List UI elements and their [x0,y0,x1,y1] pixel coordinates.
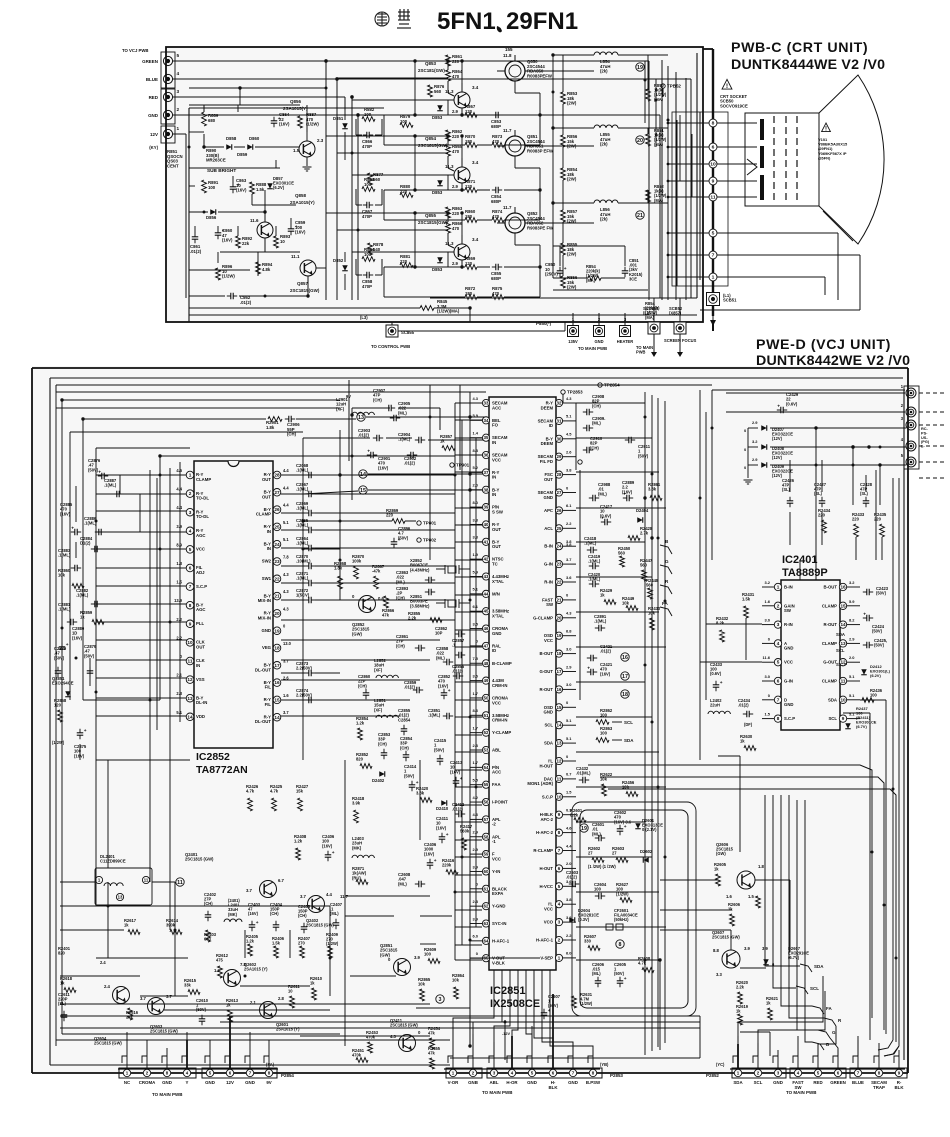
resistor R888 1.5k [250,182,255,194]
CRT gun bar 3 [760,175,764,200]
wire right top risers [815,560,817,580]
svg-text:DUNTK8444WE V2 /V0: DUNTK8444WE V2 /V0 [731,57,885,73]
diode D856 [210,209,216,215]
svg-text:11: 11 [710,195,715,201]
capacitor C853 680P [492,114,496,116]
wire CRT bottom 1 [717,232,838,234]
capacitor C866 470P [363,134,367,136]
bus vertical 2 [336,79,338,300]
connector P2854 pin 8 GND [166,1056,168,1068]
label R877 560 [368,173,373,185]
connector P2854 pin 1 NC [126,1056,128,1068]
IC2852 pin 28 R-Y OUT [273,471,281,479]
svg-text:GNB: GNB [468,1080,478,1085]
resistor R864 470 [446,70,451,81]
bus vertical 1 [325,61,327,300]
IC2852 pin 21 B-Y MIX-IN [273,592,281,600]
resistor R870 180 [465,143,477,148]
wire run right top 3 [608,789,896,1042]
CRT socket pin 11 [709,193,717,201]
connector P2854 pin 4 Y [186,1056,188,1068]
svg-text:BLK: BLK [549,1085,559,1090]
resistor R891 100 [202,180,207,193]
wire vertical pin bus left of IC2851 [454,403,456,960]
hook G bottom [818,1030,830,1038]
IC2401 pin 2 GAIN SW [774,602,781,609]
svg-text:PWB-C (CRT UNIT): PWB-C (CRT UNIT) [731,40,868,56]
warning triangle CRT socket [722,79,732,89]
bus vertical right [667,66,669,300]
connector P2852 pin 5 RED [817,1056,819,1068]
perimeter wire 5 [95,448,97,770]
connector P2852 pin 2 SCL [757,1056,759,1068]
connector P2854 housing 1 [119,1068,196,1078]
capacitor C854 680P [492,189,496,191]
IC2401 pin 13 CLAMP [839,640,846,647]
wire IC2852 left feeder [96,659,188,661]
wire P2852 risers [737,1036,739,1056]
scan tint top board [166,47,703,322]
connector pin 2 GND [163,110,172,119]
capacitor C855 680P [492,266,496,268]
IC2401 pin 8 S.C.P [774,715,781,722]
svg-text:10: 10 [710,162,716,168]
IC2401 pin 4 A GND [774,640,781,647]
diode D2411 [845,723,851,729]
capacitor C861 .01(2) [194,233,196,237]
IC2401 pin 6 G-IN [774,677,781,684]
CRT cathode chevron [747,159,757,175]
wire 12V drop [739,756,741,852]
junction [356,113,359,116]
resistor R875 470 [492,295,504,300]
bus vertical center-right [651,395,653,1051]
link 15 [359,486,367,494]
link 11 [176,878,184,886]
IC2401 pin 11 CLAMP [839,677,846,684]
IC2852 pin 26 B-Y CLAMP [273,506,281,514]
IC2852 pin 14 VDD [186,713,194,721]
connector P2852 housing 1 [732,1068,786,1078]
wire CRT bottom 2 [717,254,860,256]
svg-text:BLK: BLK [895,1085,905,1090]
wire BLUE [173,78,691,80]
svg-text:PWE-D (VCJ UNIT): PWE-D (VCJ UNIT) [756,337,891,353]
diode D853 stage [437,257,443,263]
connector P2853 pin 5 GND [531,1056,533,1068]
bus vertical center-right [664,401,666,1043]
resistor R852 1k [646,190,651,202]
junction dot sprinkle [325,87,328,90]
wire stage b [455,219,465,221]
IC2852 pin 20 R-Y MIX-IN [273,610,281,618]
link 13 [357,413,365,421]
capacitor C2423 (50V) [863,591,867,593]
wire socket feeders vertical [644,61,646,123]
svg-text:TRAP: TRAP [873,1085,885,1090]
wire IC2852 left feeder [96,715,188,717]
svg-text:ABL: ABL [490,1080,499,1085]
wire bottom bus 3 [300,1035,430,1037]
transistor Q856 [299,141,315,157]
IC2852 pin 13 B-Y DL-IN [186,694,194,702]
wire IC2852 left feeder [96,548,188,550]
capacitor C858 470P [363,274,367,276]
diode D2408 EXO322CE [761,444,767,450]
inner stage box line [430,297,697,299]
connector pin 3 right edge [906,420,916,430]
IC2852 pin 7 S.C.P [186,583,194,591]
capacitor C862 .01(2) [227,295,231,297]
svg-text:GND: GND [594,339,603,344]
CRT socket pin 5 [709,229,717,237]
perimeter wire 3 [56,384,712,386]
svg-text:(PG): (PG) [921,440,930,444]
wire diode stack [747,428,749,478]
svg-text:P2853: P2853 [610,1073,623,1078]
resistor R887 470 [298,116,303,128]
link 3 [436,995,444,1003]
wire top strip left extras [56,407,340,409]
capacitor C2424 (50V) [863,617,867,619]
bus vertical center-right [644,392,646,1055]
svg-text:GND: GND [148,113,159,118]
wire right edge dashes [919,477,946,479]
connector P850 pin 2 GND [594,326,605,337]
svg-text:P2854: P2854 [281,1073,294,1078]
wire GND [173,114,660,116]
wire sub3 [203,134,205,147]
connector pin 4 right edge [906,441,916,451]
bus vertical 3 [351,97,353,300]
connector pin 5 right edge [906,457,916,467]
arrow SCC853 [653,334,655,352]
wire mesh left cluster [189,104,300,106]
bus vertical 12V [504,1020,506,1060]
IC2851 body [489,397,556,970]
diode D857 EXO301CE [267,183,273,189]
junction [335,77,338,80]
IC2852 pin 12 VSS [186,676,194,684]
test point TP2854 [598,383,602,387]
wire R845 [398,330,565,332]
wire bottom-left mesh [60,905,210,907]
svg-text:GND: GND [162,1080,172,1085]
board inner border [50,377,903,379]
resistor R862 220 [446,130,451,141]
connector SC855 [386,325,398,337]
inner partition horizontal [189,107,384,109]
connector P2852 housing 2 [790,1068,846,1078]
IC2852 pin 11 CLK IN [186,657,194,665]
wire mesh rows [326,60,448,62]
svg-text:GREEN: GREEN [142,59,158,64]
wire IC2851 bottom fanout [453,970,494,1056]
wire conn feeders [770,427,906,429]
resistor R866 470 [446,222,451,233]
capacitor C850 10 (250V) [559,267,561,271]
wire strip a [352,407,390,409]
diode D2407 EXO322CE [761,425,767,431]
wire diodes [206,146,224,148]
link 19 [580,824,588,832]
logo stamp 2 [397,9,411,28]
svg-text:V-OR: V-OR [448,1080,460,1085]
inner bottom line [189,314,697,316]
wire 12V [173,133,186,135]
IC2852 pin 10 CLK OUT [186,639,194,647]
resistor R874 470 [492,218,504,223]
IC2852 pin 1 R-Y CLAMP [186,471,194,479]
CRT gun dashed 2 [785,116,787,203]
connector P2854 pin 8 9V [268,1056,270,1068]
CRT bell inner line [823,211,853,241]
connector P2852 pin 9 R- [898,1056,900,1068]
wire midcol [355,259,357,275]
scan tint bottom board [32,366,908,1073]
link 16 [621,653,629,661]
resistor R856 15k [561,135,566,147]
hook B [660,545,672,554]
capacitor C2906 55 (CH) [285,418,289,420]
wire IC2852 left feeder [96,697,188,699]
perimeter wire R2901 run [82,419,84,700]
capacitor C864 22(16V) [273,117,275,121]
label R876 560 [428,85,433,97]
resistor R879 100 [400,123,413,128]
connector P2852 base [730,1068,905,1070]
IC2852 pin 3 R-Y TO-DL [186,508,194,516]
resistor R869 120 [465,265,477,270]
connector P2853 pin 7 GND [572,1056,574,1068]
transistor Q850 output [505,61,525,81]
hook SDA bottom [800,964,812,972]
IC2852 pin 19 GND [273,627,281,635]
wire staircase R [789,795,824,1018]
junction stage [460,188,463,191]
diode D858 [226,144,232,150]
link 17 [621,672,629,680]
svg-text:P2852: P2852 [706,1073,719,1078]
resistor R878 540 [368,243,373,255]
connector pin 2 right edge [906,407,916,417]
connector P850 pin 1 135V [568,326,579,337]
svg-text:PWB: PWB [636,350,646,355]
IC2401 pin 14 R-OUT [839,621,846,628]
IC2852 pin 17 B-Y DL-OUT [273,662,281,670]
wire stage c [461,83,463,92]
CRT socket pin 10 [709,160,717,168]
svg-text:BLUE: BLUE [852,1080,864,1085]
connector pin 3 RED [163,92,172,101]
wire bottom bus 2 [62,1033,340,1035]
resistor R871 120 [465,188,477,193]
svg-text:US-: US- [921,436,928,440]
svg-text:7: 7 [712,253,715,259]
capacitor C867 470P [363,204,367,206]
transistor Q2602 [224,970,241,987]
connector P2852 pin 8 SECAM [878,1056,880,1068]
connector P2853 pin 3 ABL [493,1056,495,1068]
inner partition vertical [188,108,190,322]
inductor L856 47uH [594,200,618,203]
pin number 19 [636,63,644,71]
svg-text:RC-: RC- [921,427,929,431]
svg-text:SDA: SDA [733,1080,743,1085]
pin number 20 [636,136,644,144]
wire IC2852 left feeder [96,510,188,512]
wire IC2852 left feeder [96,677,188,679]
wire mesh right column [562,55,564,92]
wire top-left extra [55,385,57,392]
wire staircase SDA [765,795,800,966]
wire IC2852 left feeder [96,474,188,476]
CRT socket pin 1 [709,273,717,281]
transistor Q2603 [148,998,165,1015]
board inner border 2 [903,390,905,1060]
transistor Q2402 [308,896,325,913]
wire P2853 risers [452,1026,454,1056]
transistor Q2401 [260,881,277,898]
svg-text:GND: GND [773,1080,783,1085]
thick riser H-BLK [552,994,554,1068]
CRT bell outline [819,75,884,244]
svg-text:HEATER: HEATER [617,339,633,344]
capacitor C2901 470 (16V) [367,454,371,456]
transistor Q2411 [399,1035,416,1052]
transistor Q2607 [722,950,740,968]
diode D2404 [637,517,643,523]
capacitor C851 .001 3kV [624,267,626,271]
resistor R851 1k [646,134,651,146]
IC2852 pin 18 VEG [273,644,281,652]
wire right mid verticals [575,403,577,470]
thick riser Y pin [186,1040,188,1068]
wire right hooks [878,1040,893,1050]
junction stage [460,265,463,268]
thick riser H-OR [511,1036,513,1068]
wire midcol [355,189,357,205]
wire stage a [415,114,465,116]
wire GREEN [173,60,649,62]
ground diode stack [744,479,753,481]
wire verticals left of IC2852 [149,470,151,745]
IC2401 pin 5 VCC [774,659,781,666]
inductor L855 47uH [594,125,618,128]
connector P2854 base [118,1068,278,1070]
connector P2852 pin 6 GREEN [837,1056,839,1068]
svg-text:GREEN: GREEN [830,1080,846,1085]
diode D2410 [441,800,447,806]
IC2852 pin 16 B-Y FIL [273,679,281,687]
svg-text:Y: Y [186,1080,189,1085]
wire box bottom to SC855 [391,322,393,325]
svg-text:SCL: SCL [754,1080,763,1085]
svg-text:TO MAIN PWB: TO MAIN PWB [482,1090,513,1095]
transistor Q2852 [359,596,376,613]
test point TP802 [417,538,421,542]
bus vertical center-right [657,398,659,1047]
vertical 9V wire [348,380,350,461]
wire IC2401 bottom outs [843,712,870,714]
svg-text:GND: GND [568,1080,578,1085]
wire IC2852 left feeder [96,531,188,533]
connector pin 4 BLUE [163,74,172,83]
IC2401 pin 15 CLAMP [839,602,846,609]
resistor R873 470 [492,143,504,148]
IC2852 pin 9 PLL [186,620,194,628]
wire strip b [303,437,370,439]
CRT socket pin 7 [709,251,717,259]
wire sub2 [189,295,225,297]
CRT socket pin 8 [709,119,717,127]
wire bottom long bundle [60,1015,700,1017]
hook B bottom [812,1042,824,1050]
connector housing 12V [161,126,175,143]
transistor Q851 output [505,136,525,156]
svg-text:PS-: PS- [921,431,928,435]
wire run right top 1 [588,765,872,1018]
svg-text:(26FN): (26FN) [818,155,831,160]
wire P2852 staircase 2 [758,991,825,1056]
wire right caps vertical [339,475,341,600]
junctions top [324,59,327,62]
IC2852 pin 4 R-Y AGC [186,527,194,535]
IC2852 pin 6 FIL ADJ [186,564,194,572]
IC2401 pin 3 R-IN [774,621,781,628]
wire RED [173,96,345,98]
connector P2852 housing 3 [850,1068,907,1078]
svg-text:8: 8 [712,121,715,127]
connector housing GREEN/BLUE [161,52,175,88]
hook G [660,565,672,574]
junction dots diode stack [814,426,817,429]
diode D853 stage [437,180,443,186]
wire socket to CRT [717,146,757,148]
wire right bus horizontals [576,959,660,961]
svg-text:GND: GND [245,1080,255,1085]
wire socket to CRT [717,122,757,124]
resistor R896 10 [216,268,221,280]
delay line DL2401 [95,868,152,905]
wire bus top strip [56,391,486,393]
wire IC2852 left feeder [96,567,188,569]
socket inner frame [672,112,728,286]
wire midcol [355,119,357,135]
wire extra left rows [189,87,326,89]
logo stamp 1 [375,12,389,26]
diode D2601 EXO313CE [635,823,641,829]
IC2401 body [781,580,840,730]
diode D2605 [763,959,769,965]
wire left column risers [75,486,77,522]
transistor Q858 [257,222,273,238]
socket wires vertical [676,120,678,286]
IC2401 pin 10 SDA [839,696,846,703]
IC2852 body [194,461,273,748]
CRT gun bar 2 [760,146,764,168]
resistor R845 3.3M [420,306,434,311]
transistor Q2851 bottom [394,959,411,976]
IC2852 pin 2 R-Y TO-DL [186,490,194,498]
IC2401 pin 1 B-IN [774,583,781,590]
svg-text:1: 1 [712,275,715,281]
connector P2853 pin 4 H-OR [511,1056,513,1068]
connector P2853 housing 2 [487,1068,602,1078]
transistor Q2601 [260,1002,277,1019]
wire mid horizontals [96,759,190,761]
CRT socket bus [712,49,714,316]
